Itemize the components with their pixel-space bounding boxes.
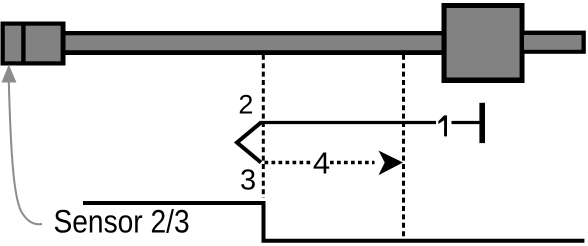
dashed reference line (right, home position) (402, 55, 405, 238)
svg-text:3: 3 (240, 164, 256, 196)
sensor block (left end, with divider) (1, 22, 66, 66)
reversal chevron (moves 2/3) (237, 123, 261, 163)
svg-text:4: 4 (313, 145, 330, 180)
motion line 1 (approach, with end stop) (260, 103, 486, 143)
motion line 4 (dotted, to home) (265, 151, 404, 176)
sensor callout arrow (gray) (2, 65, 43, 225)
axis rod (main bar) (60, 31, 444, 55)
svg-text:Sensor 2/3: Sensor 2/3 (54, 205, 190, 240)
label 1 (438, 115, 447, 136)
rod stub (right end) (524, 31, 586, 54)
dashed reference line (left, sensor edge) (262, 55, 265, 198)
carriage block (right) (442, 3, 525, 83)
svg-text:2: 2 (238, 89, 253, 119)
sensor signal trace (83, 203, 584, 241)
